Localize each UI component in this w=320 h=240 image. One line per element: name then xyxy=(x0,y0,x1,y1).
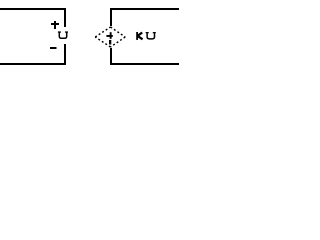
wire bottom-left (runs off left edge from port bottom terminal) xyxy=(0,63,66,65)
minus sign of port voltage U xyxy=(50,47,57,49)
plus sign inside dependent source xyxy=(106,32,112,44)
wire top-left (runs off left edge to port top terminal) xyxy=(0,8,66,10)
minus bar (rotated) inside dependent source xyxy=(109,40,111,45)
label K of controlled source value KU xyxy=(136,32,142,40)
wire port bottom terminal vertical xyxy=(64,44,66,63)
wire source bottom vertical xyxy=(110,48,112,63)
dependent source U1 diamond (dashed) xyxy=(95,27,125,47)
background xyxy=(0,0,179,72)
label U of controlled source value KU xyxy=(146,32,156,39)
wire top-right (from source top to right edge) xyxy=(110,8,179,10)
voltage label U (port) xyxy=(58,31,68,38)
plus sign of port voltage U xyxy=(51,23,59,25)
wire source top vertical xyxy=(110,8,112,26)
wire bottom-right (from source bottom to right edge) xyxy=(110,63,179,65)
wire port top terminal vertical xyxy=(64,8,66,27)
